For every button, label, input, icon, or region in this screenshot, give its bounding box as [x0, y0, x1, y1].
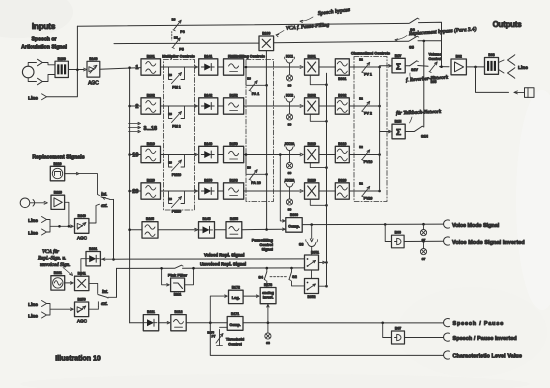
svg-text:B220: B220: [308, 178, 316, 182]
svg-text:PM19: PM19: [172, 173, 181, 177]
wire output filter to sum bus 1: [349, 66, 379, 68]
svg-text:S9: S9: [288, 84, 292, 88]
wire unvoiced common: [113, 199, 115, 259]
label voiced replacement: [204, 252, 244, 257]
bandpass filter B119: [141, 142, 161, 163]
wire bus to filter B2: [130, 105, 141, 107]
svg-text:Line: Line: [28, 218, 38, 224]
inverter B07: [392, 327, 405, 345]
node pausefilling takeoff: [265, 228, 268, 231]
wire carrier feed channel 19: [310, 163, 326, 168]
voice comparator B300: [286, 213, 302, 232]
lowpass filter B159: [224, 142, 244, 163]
svg-text:PV20: PV20: [364, 197, 373, 201]
svg-text:PV19: PV19: [364, 160, 373, 164]
node voice mode lamp tap: [422, 223, 425, 226]
bandpass filter B120: [141, 178, 161, 199]
svg-text:B2: B2: [359, 97, 363, 101]
switch S1H: [405, 126, 428, 138]
switch S5: [409, 36, 419, 49]
svg-text:Σ: Σ: [396, 61, 401, 71]
svg-text:PV 2: PV 2: [364, 112, 372, 116]
potentiometer PM20: [168, 191, 184, 214]
wire multiplier to output filter 20: [319, 190, 335, 192]
summer B1V: [392, 54, 405, 73]
bandpass filter B101: [141, 54, 161, 75]
wire rectifier to lowpass 19: [218, 154, 224, 156]
svg-text:B241: B241: [78, 272, 86, 276]
svg-text:B105: B105: [146, 217, 154, 221]
svg-text:B3: B3: [168, 73, 172, 77]
potentiometer P6: [172, 18, 185, 34]
multiplier B219: [305, 142, 319, 163]
line input connector Line 4: [28, 301, 46, 308]
node speech pause inverter branch: [381, 322, 384, 325]
svg-text:Replacement Signals: Replacement Signals: [32, 155, 84, 161]
svg-text:B02: B02: [456, 55, 462, 59]
output amplifier B02: [451, 55, 466, 75]
svg-text:B250: B250: [78, 298, 86, 302]
svg-text:Outputs: Outputs: [493, 20, 523, 29]
rectifier B142: [199, 93, 218, 114]
replacement switch B352: [305, 279, 319, 299]
svg-text:S5: S5: [409, 45, 414, 49]
annotation talkback network: [396, 108, 442, 123]
svg-text:B120: B120: [147, 178, 155, 182]
svg-text:B171: B171: [231, 312, 239, 316]
svg-text:KK2: KK2: [286, 94, 293, 98]
svg-text:ext.: ext.: [101, 204, 108, 209]
speech rectifier B111: [143, 310, 158, 331]
svg-text:S9: S9: [288, 123, 292, 127]
node sum bus channel 2: [378, 105, 381, 108]
jack socket voice mode: [420, 224, 426, 242]
line input connector Line 5: [28, 312, 46, 319]
svg-text:Comp.: Comp.: [230, 323, 241, 327]
svg-text:B173: B173: [264, 283, 272, 287]
switch internal voiced: [98, 290, 117, 298]
svg-text:B112: B112: [175, 310, 183, 314]
svg-text:Control: Control: [428, 57, 441, 61]
bus pausefilling control: [266, 85, 268, 229]
svg-text:B159: B159: [230, 142, 238, 146]
svg-text:B3: B3: [247, 77, 251, 81]
wire output filter to sum bus 2: [349, 105, 379, 107]
svg-text:B101: B101: [147, 54, 155, 58]
output connector speech pause: [444, 318, 504, 327]
svg-text:P6: P6: [180, 30, 184, 34]
carrier patch jack KK1: [284, 55, 294, 75]
potentiometer PM 2: [168, 106, 184, 129]
wire to detection lowpass: [215, 229, 227, 231]
wire VCA control from pausefilling bus: [265, 51, 267, 86]
svg-text:Σ: Σ: [396, 127, 401, 137]
potentiometer PV 1: [359, 58, 372, 77]
svg-text:B160: B160: [262, 31, 270, 35]
output transformer B03: [485, 53, 499, 74]
wire transformer to AGC: [68, 68, 86, 71]
svg-text:B142: B142: [204, 93, 212, 97]
wire mic amp to line node: [65, 202, 69, 226]
svg-text:2: 2: [135, 104, 138, 110]
channel number 20: [132, 189, 138, 195]
svg-text:B201: B201: [308, 54, 316, 58]
potentiometer PA 1: [247, 77, 259, 97]
wire to voice inverter: [385, 224, 391, 241]
svg-text:B240: B240: [78, 214, 86, 218]
channel number 1: [135, 65, 138, 71]
svg-text:B351: B351: [311, 251, 319, 255]
node analysis bus tap: [128, 66, 131, 69]
log converter B172: [229, 286, 244, 304]
svg-text:PM 1: PM 1: [172, 86, 180, 90]
svg-text:S1V: S1V: [411, 68, 418, 72]
node voiced line junction: [112, 258, 115, 261]
lowpass filter B152: [224, 93, 244, 114]
svg-text:S9: S9: [288, 208, 292, 212]
wire control channel 20: [244, 190, 304, 193]
speech comparator B171: [227, 312, 243, 330]
svg-text:B352: B352: [307, 295, 315, 299]
svg-text:3...18: 3...18: [144, 126, 158, 132]
pink filter bypass loop: [160, 267, 195, 286]
svg-text:Voice Mode Signal: Voice Mode Signal: [452, 223, 500, 229]
wire carrier feed channel 20: [310, 199, 326, 205]
svg-text:KK19: KK19: [285, 142, 294, 146]
svg-text:Volume: Volume: [428, 53, 441, 57]
svg-text:B140: B140: [89, 57, 97, 61]
svg-text:Inputs: Inputs: [32, 22, 56, 31]
svg-text:S2: S2: [292, 275, 297, 279]
wire output filter to sum bus 20: [349, 190, 379, 192]
svg-text:PV 1: PV 1: [364, 73, 372, 77]
svg-text:B145: B145: [202, 217, 210, 221]
svg-text:B150: B150: [204, 178, 212, 182]
AGC amplifier B240: [75, 214, 89, 241]
rectifier B149: [199, 142, 218, 163]
svg-text:invert.: invert.: [263, 296, 274, 300]
node speech level junction: [209, 321, 212, 324]
svg-text:B172: B172: [232, 286, 240, 290]
switch external voiced: [98, 302, 107, 307]
line input connector Line 2: [28, 217, 46, 224]
wire to log converter: [210, 295, 227, 323]
wire headphone output: [476, 67, 525, 94]
svg-text:int.: int.: [101, 193, 107, 198]
node carrier bus channel 19: [325, 166, 328, 169]
rectifier B150: [199, 178, 218, 199]
lowpass filter B151: [224, 54, 244, 75]
potentiometer PM 1: [168, 67, 184, 90]
wire unvoiced replacement signal: [117, 265, 305, 268]
wire pausefill channel 1 tap: [245, 66, 267, 86]
replacement switch B351: [305, 251, 320, 271]
wire between switch boxes: [311, 270, 313, 279]
svg-text:B220: B220: [54, 191, 62, 195]
svg-text:B3: B3: [168, 112, 172, 116]
svg-text:B141: B141: [204, 54, 212, 58]
line output jacks: [499, 55, 529, 78]
wire to speech lowpass: [159, 322, 170, 324]
output bandpass filter B302: [335, 93, 349, 114]
svg-text:Threshold: Threshold: [226, 338, 245, 342]
group box Multiplier Controls: [162, 55, 195, 211]
wire S6 to output node: [419, 22, 442, 67]
input transformer B100: [55, 57, 68, 78]
wire noise to int switch: [65, 172, 100, 195]
svg-text:B111: B111: [147, 310, 155, 314]
svg-text:B3: B3: [168, 197, 172, 201]
AGC amplifier B140: [87, 57, 100, 87]
wire speech pause signal: [243, 322, 444, 324]
svg-text:B1H: B1H: [395, 120, 402, 124]
annotation reverber network: [406, 73, 449, 83]
title Outputs: [493, 20, 523, 29]
svg-text:Channelized Controls: Channelized Controls: [351, 52, 390, 56]
carrier patch jack KK20: [284, 179, 294, 199]
svg-text:B301: B301: [338, 77, 346, 81]
svg-text:Log.: Log.: [232, 296, 240, 300]
wire multiplier to output filter 1: [319, 66, 335, 68]
wire control channel 1: [244, 66, 304, 69]
node channel 2 bus tap: [128, 105, 131, 108]
node carrier bus channel 2: [325, 120, 328, 123]
svg-text:B05: B05: [431, 80, 437, 84]
potentiometer PM19: [168, 155, 184, 178]
wire bus to detection filter: [128, 228, 142, 231]
wire S5 node down to S1H: [423, 41, 425, 127]
node pausefill bus PA10: [265, 173, 268, 176]
wire volume to amplifier: [440, 65, 450, 68]
svg-text:B3: B3: [247, 166, 251, 170]
node voice mode branch S3: [310, 223, 313, 226]
wire B102 to rectifier: [161, 105, 198, 108]
jack socket S9 channel 19: [286, 162, 292, 175]
switch S2 dashed gang: [270, 267, 305, 286]
svg-text:Comp.: Comp.: [288, 225, 299, 229]
inverter B06: [392, 231, 405, 248]
output connector speech pause inverted: [444, 333, 517, 342]
wire rectifier to lowpass 2: [218, 105, 224, 107]
wire AGC output to analysis bus: [100, 68, 141, 70]
oscillator B231: [51, 271, 65, 290]
line input connector Line 1: [28, 94, 46, 102]
svg-text:B151: B151: [230, 54, 238, 58]
jack socket S9 channel 20: [286, 199, 292, 212]
svg-text:B320: B320: [338, 178, 346, 182]
svg-text:AGC: AGC: [77, 236, 88, 241]
node analog inverter input: [267, 305, 270, 325]
svg-text:B175: B175: [207, 331, 214, 335]
svg-text:P7: P7: [211, 335, 215, 339]
node sum bus channel 20: [378, 190, 381, 193]
svg-text:S8: S8: [266, 341, 270, 345]
multiplier B201: [305, 54, 319, 75]
potentiometer PO volume control: [428, 53, 441, 84]
control jack S3: [299, 225, 318, 255]
noise generator B210: [50, 162, 64, 181]
wire AGC B250 to ext switch: [89, 307, 99, 310]
wire characteristic level value: [210, 323, 443, 356]
svg-text:VCA für: VCA für: [42, 248, 60, 255]
annotation speech bypass: [300, 7, 350, 22]
wire VCA out to int switch: [89, 283, 98, 293]
wire output filter to sum bus 19: [349, 154, 379, 156]
wire voice mode signal: [302, 223, 443, 226]
replacement VCA multiplier B241: [75, 272, 89, 291]
node carrier bus channel 1: [325, 83, 328, 86]
svg-text:B281: B281: [174, 293, 182, 297]
svg-text:B155: B155: [230, 217, 238, 221]
svg-text:P5: P5: [179, 48, 183, 52]
carrier patch jack KK19: [284, 142, 294, 162]
svg-text:B102: B102: [147, 93, 155, 97]
gang link M1: [172, 32, 179, 41]
svg-text:Illustration 10: Illustration 10: [55, 356, 101, 363]
node channel 20 bus tap: [128, 190, 131, 193]
rectifier B145: [199, 217, 215, 238]
summer B1H: [392, 120, 405, 139]
svg-text:KK20: KK20: [285, 179, 294, 183]
svg-text:Speech / Pause Inverted: Speech / Pause Inverted: [453, 336, 517, 342]
bus analysis input: [129, 68, 131, 323]
switch external unvoiced: [96, 204, 108, 222]
output connector characteristic level: [444, 351, 522, 360]
wire voiced common riser: [116, 268, 118, 297]
wire B101 to rectifier: [161, 66, 198, 69]
jack socket speech pause: [265, 323, 271, 345]
bus carrier: [326, 73, 328, 286]
wire speech pause inverted: [405, 337, 444, 339]
rectifier B141: [199, 54, 218, 75]
wire replacement bypass left: [114, 42, 259, 45]
svg-text:Signal: Signal: [262, 248, 273, 252]
svg-text:B3: B3: [172, 18, 176, 22]
node replacement bypass junction: [423, 40, 426, 43]
svg-text:int.: int.: [102, 290, 108, 295]
svg-text:B168: B168: [230, 178, 238, 182]
wire AGC B240 to ext switch: [89, 222, 96, 225]
switch internal unvoiced: [101, 193, 114, 200]
wire line input to bypass node: [47, 26, 78, 97]
svg-text:Voiced Repl. Signal: Voiced Repl. Signal: [204, 252, 244, 257]
svg-text:analog: analog: [262, 291, 274, 295]
svg-text:S7: S7: [422, 257, 426, 261]
wire B119 to rectifier: [161, 153, 198, 156]
wire carrier feed channel 2: [310, 114, 326, 121]
wire sum bus to summer B1H: [380, 130, 392, 133]
potentiometer PA 10: [247, 166, 261, 185]
svg-text:B07: B07: [395, 327, 401, 331]
svg-text:1: 1: [135, 65, 138, 71]
wire line inputs to AGC B250: [47, 304, 74, 316]
carrier patch jack KK2: [284, 94, 294, 114]
replacement mic amplifier B220: [51, 191, 65, 210]
wire rectifier to VCA control: [80, 259, 86, 276]
detection lowpass B155: [226, 217, 242, 238]
svg-text:B219: B219: [308, 142, 316, 146]
wire B351 to carrier bus: [319, 261, 328, 264]
group box Channelized Controls: [351, 52, 390, 202]
svg-text:PA 10: PA 10: [251, 181, 261, 185]
svg-text:Speech or: Speech or: [31, 37, 56, 43]
AGC amplifier B250: [75, 298, 89, 324]
wire bus to speech rectifier: [130, 322, 144, 324]
svg-text:B06: B06: [395, 231, 401, 235]
svg-text:B202: B202: [308, 93, 316, 97]
svg-text:B119: B119: [147, 142, 155, 146]
label unvoiced replacement: [200, 262, 246, 267]
label channels 3 to 18: [129, 122, 158, 132]
svg-text:B261: B261: [89, 247, 97, 251]
bus channel sum: [379, 67, 381, 191]
pause detection filter B105: [142, 217, 158, 238]
svg-text:Articulation Signal: Articulation Signal: [21, 45, 67, 51]
node carrier bus channel 20: [325, 204, 328, 207]
svg-text:Line: Line: [28, 96, 38, 102]
svg-text:B300: B300: [290, 213, 298, 217]
svg-text:B2: B2: [359, 145, 363, 149]
jack socket S9 channel 2: [286, 114, 292, 127]
output connector voice mode: [444, 220, 500, 229]
svg-text:Line: Line: [28, 302, 38, 308]
svg-text:B100: B100: [58, 57, 66, 61]
svg-text:Pink Filter: Pink Filter: [168, 272, 188, 277]
channel number 2: [135, 104, 138, 110]
svg-text:B3: B3: [168, 161, 172, 165]
svg-text:B2: B2: [359, 182, 363, 186]
svg-text:Unvoiced Repl. Signal: Unvoiced Repl. Signal: [200, 262, 246, 267]
channel number 19: [132, 153, 138, 159]
wire speech level: [186, 322, 227, 324]
switch S1V: [405, 61, 428, 72]
pink filter B281: [168, 272, 188, 296]
output bandpass filter B301: [335, 59, 349, 81]
annotation VCA for replacement: [37, 248, 73, 276]
jack socket S9 channel 1: [286, 75, 292, 88]
wire oscillator to VCA: [65, 282, 74, 285]
wire voice mode inverted: [404, 240, 443, 242]
svg-text:unvoiced Sign.: unvoiced Sign.: [40, 262, 71, 268]
svg-text:Line: Line: [28, 230, 38, 236]
svg-text:Line: Line: [518, 65, 528, 71]
node sum bus channel 1: [378, 66, 381, 69]
svg-text:PM20: PM20: [172, 210, 181, 214]
node voice mode inverter branch: [384, 223, 387, 226]
wire control channel 2: [244, 105, 304, 108]
svg-text:Line: Line: [28, 313, 38, 319]
svg-text:B03: B03: [488, 53, 494, 57]
annotation replacement bypass: [395, 25, 477, 41]
node sum bus channel 19: [378, 153, 381, 156]
wire speech bypass: [77, 23, 408, 26]
wire S5 to output node: [418, 40, 442, 42]
svg-text:KK1: KK1: [286, 55, 293, 59]
node channel 19 bus tap: [128, 153, 131, 156]
svg-text:B210: B210: [53, 162, 61, 166]
potentiometer P5: [172, 38, 184, 52]
svg-text:PA 1: PA 1: [252, 92, 260, 96]
node voice inverted lamp tap: [422, 240, 425, 243]
potentiometer PV20: [359, 182, 372, 201]
wire carrier feed channel 1: [310, 75, 326, 85]
svg-text:Repl.-Sign. u.: Repl.-Sign. u.: [37, 256, 66, 262]
node bypass tap: [76, 69, 79, 72]
svg-text:B2: B2: [359, 58, 363, 62]
multiplier B202: [305, 93, 319, 114]
wire pausefill channel 19 tap: [245, 153, 267, 174]
potentiometer PV19: [359, 145, 372, 164]
